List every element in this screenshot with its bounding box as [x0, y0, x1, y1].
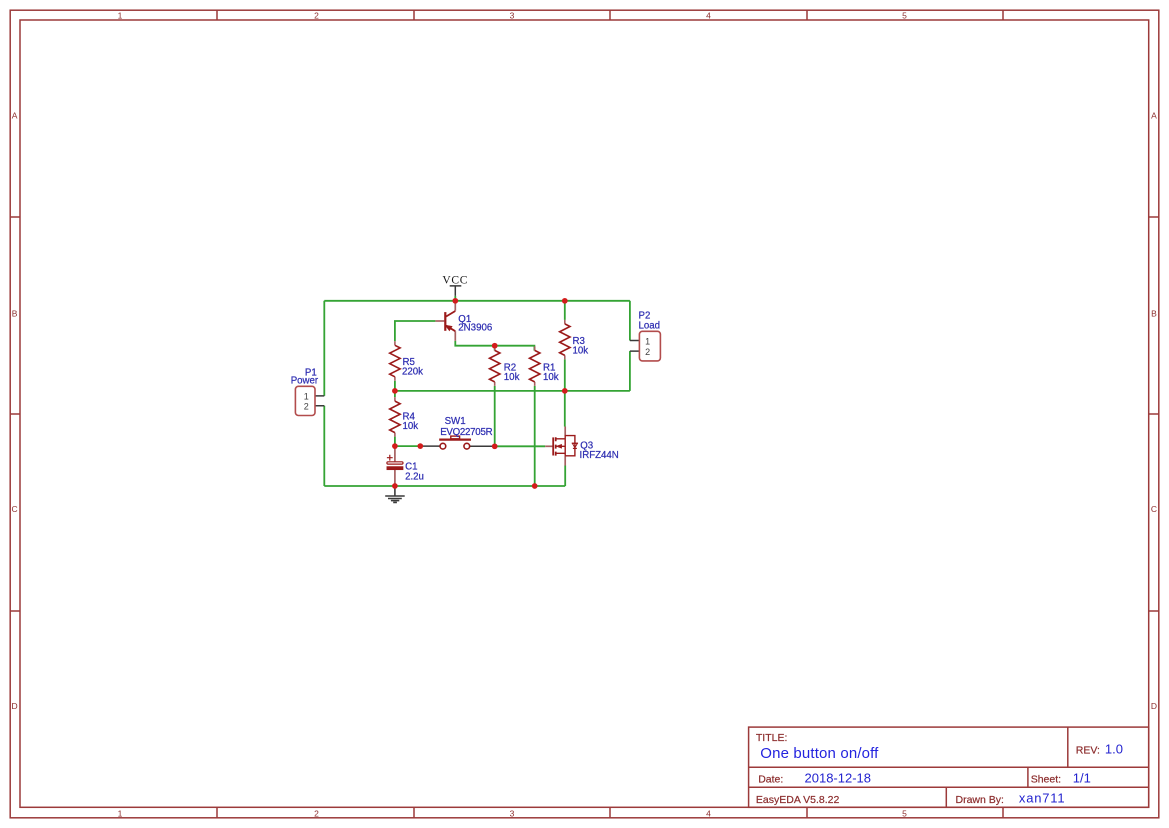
connector P2: [630, 331, 661, 361]
svg-text:EasyEDA V5.8.22: EasyEDA V5.8.22: [756, 794, 840, 806]
svg-text:4: 4: [706, 808, 711, 818]
resistor R2: [490, 346, 500, 386]
svg-text:5: 5: [902, 11, 907, 21]
svg-text:One button on/off: One button on/off: [760, 745, 879, 762]
resistor R4: [390, 397, 400, 437]
wire R1 bottom to bottom rail: [534, 386, 536, 486]
wire Q3 source riser: [564, 466, 566, 487]
svg-text:1: 1: [645, 336, 650, 346]
svg-text:C: C: [12, 504, 18, 514]
svg-text:220k: 220k: [402, 366, 423, 377]
svg-text:D: D: [12, 701, 18, 711]
svg-text:1.0: 1.0: [1105, 742, 1123, 757]
svg-text:1: 1: [118, 808, 123, 818]
svg-text:A: A: [12, 111, 18, 121]
svg-text:xan711: xan711: [1019, 791, 1066, 806]
svg-text:2.2u: 2.2u: [405, 471, 424, 482]
junction R1 / ground rail: [532, 483, 538, 489]
junction SW1 pin 1: [417, 443, 423, 449]
wire bottom ground rail: [324, 485, 565, 487]
svg-text:4: 4: [706, 11, 711, 21]
wire VCC flag stub: [454, 296, 456, 301]
wire Q1 base to R5 top: [395, 321, 436, 341]
svg-text:Power: Power: [291, 376, 319, 387]
junction C1 / ground rail: [392, 483, 398, 489]
wire R4 top stub: [394, 391, 396, 397]
wire R3 bottom to Q3 drain: [564, 359, 566, 426]
power flag VCC: [450, 286, 462, 296]
transistor Q1 (PNP): [435, 301, 455, 341]
svg-text:3: 3: [510, 808, 515, 818]
svg-text:C: C: [1151, 504, 1157, 514]
svg-text:10k: 10k: [504, 372, 520, 383]
wire node A to SW1 pin 1: [395, 445, 420, 447]
junction R3 / top rail: [562, 298, 568, 304]
svg-text:TITLE:: TITLE:: [756, 732, 788, 744]
switch SW1: [421, 436, 494, 449]
connector P1: [295, 386, 324, 415]
wire middle rail: [395, 390, 630, 392]
svg-text:2: 2: [314, 11, 319, 21]
svg-text:10k: 10k: [573, 345, 589, 356]
ground: [385, 486, 405, 502]
wire VCC top rail: [324, 300, 630, 302]
svg-text:2: 2: [304, 401, 309, 411]
resistor R3: [560, 320, 570, 360]
svg-text:Drawn By:: Drawn By:: [956, 794, 1004, 806]
junction R3 / middle rail: [562, 388, 568, 394]
wire P2 pin 1 riser: [629, 301, 631, 341]
wire left rail upper (P1 pin 1 to top rail): [323, 301, 325, 396]
svg-text:Sheet:: Sheet:: [1031, 774, 1061, 786]
svg-text:1: 1: [118, 11, 123, 21]
svg-text:5: 5: [902, 808, 907, 818]
junction node A (R4/C1/SW1): [392, 443, 398, 449]
wire left rail lower (P1 pin 2 to bottom rail): [323, 406, 325, 486]
svg-text:10k: 10k: [403, 421, 419, 432]
wire R5 bottom stub: [394, 381, 396, 391]
svg-text:B: B: [1151, 309, 1157, 319]
wire P2 pin 2 riser: [629, 351, 631, 391]
svg-text:2: 2: [314, 808, 319, 818]
wire R4 bottom stub: [394, 437, 396, 447]
junction VCC flag / top rail: [452, 298, 458, 304]
svg-text:2N3906: 2N3906: [458, 322, 492, 333]
svg-text:1/1: 1/1: [1073, 771, 1091, 786]
svg-text:B: B: [12, 309, 18, 319]
junction R2 top / collector wire: [492, 343, 498, 349]
wire R2 bottom to switch node: [494, 386, 496, 446]
resistor R1: [530, 346, 540, 386]
svg-text:Date:: Date:: [758, 774, 783, 786]
svg-text:EVQ22705R: EVQ22705R: [440, 427, 492, 438]
wire SW1 pin 2 to Q3 gate: [495, 445, 546, 447]
wire R3 top stub: [564, 301, 566, 320]
wire Q1 collector to R1 top: [455, 341, 534, 351]
svg-text:SW1: SW1: [445, 416, 466, 427]
svg-text:3: 3: [510, 11, 515, 21]
svg-text:2: 2: [645, 347, 650, 357]
resistor R5: [390, 341, 400, 381]
capacitor C1 (polarized): [387, 446, 403, 486]
mosfet Q3 (N-channel): [545, 427, 578, 466]
svg-text:REV:: REV:: [1076, 745, 1100, 757]
svg-text:Load: Load: [639, 320, 661, 331]
svg-text:VCC: VCC: [442, 274, 468, 286]
wire R2 top stub: [494, 346, 496, 351]
junction SW1 pin 2 / gate node: [492, 443, 498, 449]
svg-text:2018-12-18: 2018-12-18: [805, 771, 872, 786]
svg-text:A: A: [1151, 111, 1157, 121]
svg-text:10k: 10k: [543, 372, 559, 383]
svg-text:IRFZ44N: IRFZ44N: [580, 450, 619, 461]
junction R5-R4 / middle rail: [392, 388, 398, 394]
svg-text:1: 1: [304, 391, 309, 401]
svg-text:D: D: [1151, 701, 1157, 711]
